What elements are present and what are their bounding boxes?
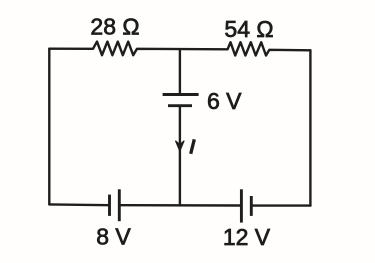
svg-text:6 V: 6 V [207, 88, 242, 114]
svg-text:8 V: 8 V [96, 223, 131, 249]
svg-text:54 Ω: 54 Ω [224, 16, 273, 42]
svg-text:28 Ω: 28 Ω [90, 14, 139, 40]
svg-text:12 V: 12 V [223, 224, 271, 250]
